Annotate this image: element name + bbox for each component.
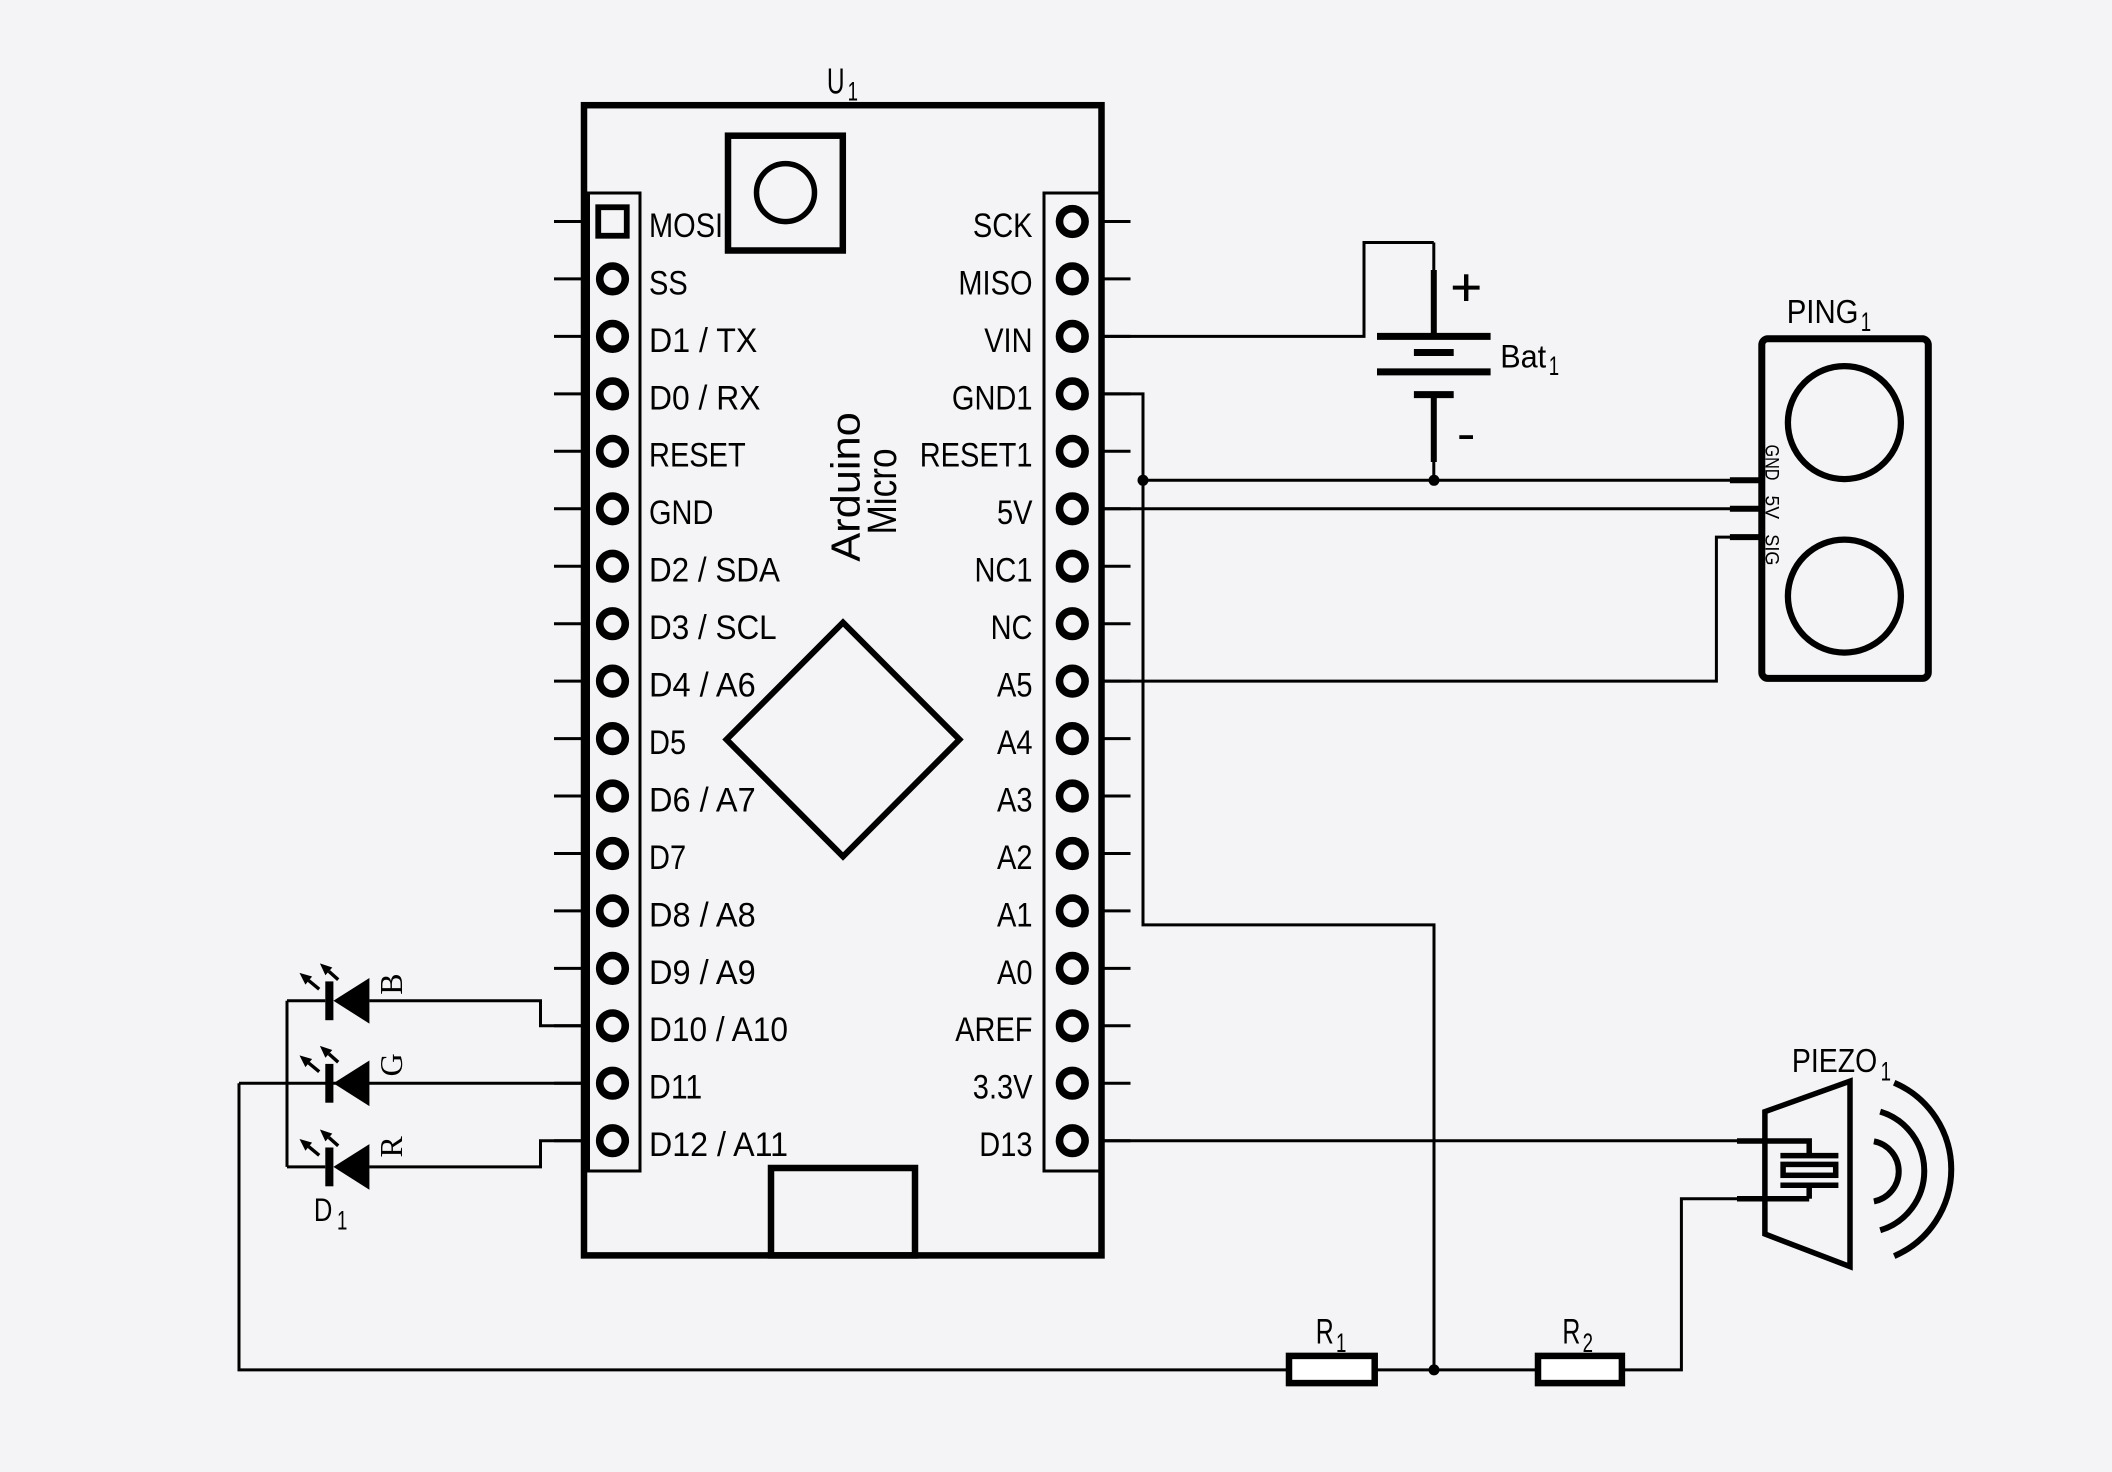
- svg-text:NC1: NC1: [975, 552, 1033, 590]
- svg-text:GND: GND: [1761, 445, 1782, 481]
- svg-text:AREF: AREF: [955, 1011, 1032, 1049]
- svg-text:SCK: SCK: [973, 207, 1033, 245]
- svg-text:D11: D11: [649, 1069, 702, 1107]
- svg-text:D2 / SDA: D2 / SDA: [649, 552, 780, 590]
- svg-text:R: R: [373, 1135, 409, 1157]
- svg-text:R: R: [1316, 1313, 1334, 1352]
- svg-text:1: 1: [1881, 1056, 1891, 1086]
- svg-text:A5: A5: [997, 667, 1033, 705]
- svg-text:VIN: VIN: [984, 322, 1032, 360]
- svg-text:D10 / A10: D10 / A10: [649, 1011, 788, 1049]
- svg-text:D7: D7: [649, 839, 686, 877]
- svg-text:GND1: GND1: [952, 379, 1033, 417]
- svg-text:SIG: SIG: [1761, 534, 1782, 565]
- svg-text:PING: PING: [1787, 293, 1859, 330]
- svg-text:B: B: [373, 973, 409, 994]
- svg-text:A2: A2: [997, 839, 1033, 877]
- svg-text:D8 / A8: D8 / A8: [649, 896, 756, 934]
- svg-text:PIEZO: PIEZO: [1792, 1042, 1877, 1079]
- svg-text:D0 / RX: D0 / RX: [649, 379, 761, 417]
- svg-text:GND: GND: [649, 494, 713, 532]
- svg-text:D1 / TX: D1 / TX: [649, 322, 757, 360]
- svg-text:2: 2: [1583, 1328, 1593, 1358]
- svg-text:D: D: [314, 1192, 333, 1228]
- svg-text:R: R: [1562, 1313, 1580, 1352]
- svg-text:A1: A1: [997, 896, 1033, 934]
- svg-text:1: 1: [1336, 1328, 1346, 1358]
- svg-text:3.3V: 3.3V: [973, 1069, 1033, 1107]
- svg-text:5V: 5V: [1761, 496, 1782, 520]
- svg-text:NC: NC: [991, 609, 1033, 647]
- svg-text:RESET: RESET: [649, 437, 746, 475]
- svg-text:Micro: Micro: [859, 448, 905, 534]
- svg-text:MISO: MISO: [958, 264, 1032, 302]
- svg-text:RESET1: RESET1: [920, 437, 1033, 475]
- svg-text:D6 / A7: D6 / A7: [649, 781, 756, 819]
- svg-text:1: 1: [1549, 351, 1559, 381]
- svg-text:A0: A0: [997, 954, 1033, 992]
- svg-text:A3: A3: [997, 781, 1033, 819]
- svg-text:1: 1: [848, 76, 858, 106]
- svg-text:A4: A4: [997, 724, 1033, 762]
- svg-text:D5: D5: [649, 724, 686, 762]
- svg-text:SS: SS: [649, 264, 688, 302]
- svg-text:D12 / A11: D12 / A11: [649, 1126, 788, 1164]
- svg-text:D4 / A6: D4 / A6: [649, 667, 756, 705]
- svg-text:1: 1: [1861, 307, 1871, 337]
- svg-text:D9 / A9: D9 / A9: [649, 954, 756, 992]
- svg-text:Bat: Bat: [1500, 339, 1546, 375]
- svg-text:MOSI: MOSI: [649, 207, 723, 245]
- svg-text:1: 1: [337, 1206, 347, 1236]
- svg-text:D13: D13: [979, 1126, 1032, 1164]
- svg-text:U: U: [827, 61, 845, 102]
- svg-text:G: G: [373, 1053, 409, 1076]
- svg-text:5V: 5V: [997, 494, 1033, 532]
- svg-text:D3 / SCL: D3 / SCL: [649, 609, 777, 647]
